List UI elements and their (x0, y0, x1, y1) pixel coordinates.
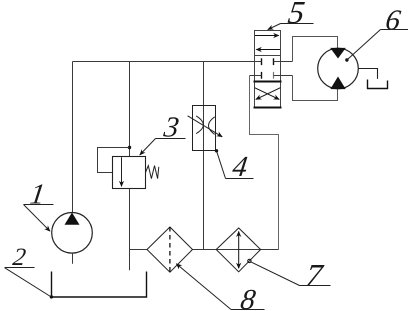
svg-text:2: 2 (11, 244, 27, 271)
label 4 underline and leader (226, 178, 254, 180)
valve 5 top box arrow right (255, 35, 279, 37)
svg-text:5: 5 (286, 0, 307, 30)
valve 5 port stub lower-right (274, 75, 293, 77)
wire: relief valve to return line (129, 189, 131, 271)
node: pilot branch junction (128, 146, 131, 149)
relief valve 3 spring (146, 166, 159, 179)
label 1 underline and leader (24, 204, 54, 206)
hydraulic motor 6 (318, 48, 359, 89)
wire: pump riser (72, 62, 74, 213)
filter 8 diamond (147, 227, 193, 272)
svg-text:1: 1 (28, 179, 47, 211)
wire: motor drain line (358, 69, 377, 79)
valve 5 port stub lower-left (250, 75, 262, 77)
valve 5 position box bottom (crossed) (255, 82, 281, 108)
wire: bottom return line left of filter (130, 249, 148, 251)
tank 2 (52, 272, 147, 298)
throttle valve 4 adjustment arrow (188, 116, 223, 137)
wire: throttle branch (203, 62, 205, 250)
svg-text:8: 8 (239, 284, 258, 311)
valve 5 crossed arrow 1 (255, 88, 280, 100)
valve 5 port tick upper-right (273, 58, 275, 65)
valve 5 position box middle (closed center) (255, 56, 281, 82)
wire: relief valve branch upper (129, 62, 131, 157)
label 8 underline and leader (231, 309, 265, 311)
valve 5 bottom box bold bottom edge (254, 107, 282, 109)
throttle valve 4 body (193, 106, 216, 151)
cooler 7 diamond (216, 228, 260, 272)
relief valve 3 internal arrow (121, 157, 123, 186)
wire: bottom return line filter to cooler to right riser (193, 249, 279, 251)
label 5 underline and leader (281, 23, 314, 25)
svg-text:6: 6 (384, 5, 403, 37)
valve 5 crossed arrow 2 (256, 88, 281, 100)
wire: valve B port to motor bottom (293, 76, 338, 101)
label 6 underline and leader (381, 29, 409, 31)
valve 5 port tick lower-left (261, 72, 263, 79)
wire: relief valve pilot loop (98, 148, 130, 173)
valve 5 port tick upper-left (261, 58, 263, 65)
label 3 underline and leader (156, 138, 186, 140)
valve 5 top box arrow left (256, 49, 280, 51)
label 7 underline and leader (300, 285, 331, 287)
wire: supply line pump to valve P port (73, 61, 262, 63)
throttle valve 4 arcs (196, 116, 203, 134)
cooler 7 double arrow (238, 231, 240, 268)
valve 5 position box top (parallel arrows) (255, 31, 281, 56)
wire: valve T port return (left-down-right-down) (250, 76, 279, 250)
filter 8 dashed element (169, 227, 171, 272)
drain tank symbol (368, 80, 388, 89)
valve 5 port stub upper-right (274, 61, 293, 63)
svg-text:7: 7 (304, 257, 327, 293)
pump 1 (52, 213, 93, 264)
label 2 underline and leader (5, 267, 35, 269)
valve 5 bottom box bold top edge (254, 81, 282, 83)
valve 5 port stub upper-left inside (255, 61, 262, 63)
wire: valve A port to motor top (293, 37, 338, 62)
valve 5 port tick lower-right (273, 72, 275, 79)
relief valve 3 body (113, 157, 146, 189)
